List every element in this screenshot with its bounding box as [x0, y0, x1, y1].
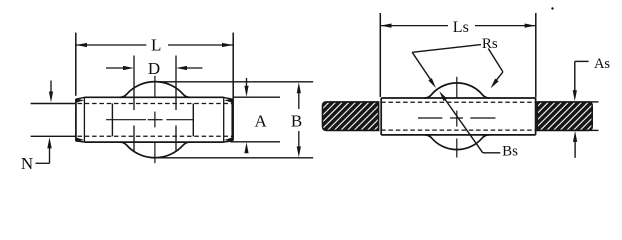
Ls dimension line	[381, 25, 536, 27]
pipe hidden line bottom	[381, 129, 535, 131]
dimension D arrow right	[185, 67, 203, 69]
dimension D extension line right	[175, 56, 177, 111]
svg-text:N: N	[21, 154, 33, 173]
left end face	[75, 99, 77, 141]
body bottom edge	[84, 141, 223, 143]
A extension line top	[234, 96, 281, 98]
N bore line bottom (extends left)	[31, 135, 76, 137]
fitting rect right	[535, 98, 537, 135]
dimension L arrowheads	[76, 43, 233, 47]
corner wedge left-bottom	[76, 137, 84, 141]
svg-text:L: L	[151, 36, 161, 55]
B extension line top	[152, 81, 314, 83]
sphere bottom arc	[120, 142, 190, 158]
N top arrow	[50, 81, 52, 95]
pipe hidden line top	[381, 101, 535, 103]
svg-text:Rs: Rs	[482, 36, 498, 52]
fitting rect left	[380, 98, 382, 135]
socket shoulder right	[192, 104, 194, 137]
A bottom arrow	[246, 151, 248, 153]
N bore line top (extends left)	[31, 103, 76, 105]
pipe hatch left	[323, 102, 379, 130]
D extension lower segment left	[133, 126, 135, 152]
Ls extension line right	[535, 13, 537, 98]
right end face	[231, 99, 233, 141]
pipe hatch right	[537, 102, 592, 130]
right end bevel bottom	[224, 141, 233, 142]
Rs right leader	[488, 49, 503, 72]
B extension line bottom	[152, 157, 314, 159]
svg-text:D: D	[148, 59, 160, 78]
Bs leader	[444, 98, 483, 153]
A extension line bottom	[231, 141, 281, 143]
sphere bottom arc right view	[425, 135, 489, 150]
D extension lower segment right	[175, 126, 177, 152]
fitting rect top	[381, 97, 535, 99]
svg-text:B: B	[291, 112, 302, 131]
bore hidden line top	[78, 103, 232, 105]
svg-text:Ls: Ls	[453, 19, 469, 36]
left end bevel bottom	[76, 141, 85, 142]
A top arrow	[246, 78, 248, 88]
sphere top arc right view	[424, 83, 489, 98]
left end bevel top	[76, 97, 85, 99]
socket shoulder left	[111, 104, 113, 137]
fitting rect bottom	[381, 134, 535, 136]
dimension L extension line right	[232, 33, 234, 141]
corner wedge right-bottom	[224, 137, 232, 141]
centerline horizontal segments	[106, 119, 194, 121]
corner wedge right-top	[224, 99, 232, 103]
Rs left leader	[412, 45, 481, 53]
svg-text:Bs: Bs	[502, 143, 518, 159]
As bottom arrow	[574, 140, 576, 158]
dimension D extension line left	[133, 56, 135, 111]
sphere top arc	[120, 82, 190, 98]
right end shoulder	[223, 97, 225, 142]
svg-text:As: As	[594, 56, 610, 72]
left end shoulder	[83, 97, 85, 142]
N leader	[36, 162, 50, 164]
dimension L line	[76, 44, 233, 46]
centerline vertical segments	[154, 76, 156, 163]
svg-text:A: A	[254, 111, 267, 130]
As extension stubs	[588, 101, 599, 103]
dimension L extension line left	[75, 33, 77, 96]
As leader	[575, 60, 589, 62]
bore hidden line bottom	[78, 135, 232, 137]
body top edge	[84, 96, 223, 98]
B top arrow	[298, 91, 300, 109]
Ls extension line left	[379, 13, 381, 97]
right end bevel top	[224, 97, 233, 99]
centerline cross right view	[418, 77, 496, 158]
corner wedge left-top	[76, 99, 84, 103]
B bottom arrow	[298, 131, 300, 149]
dimension D arrow left	[106, 67, 125, 69]
stray dot	[551, 7, 553, 9]
